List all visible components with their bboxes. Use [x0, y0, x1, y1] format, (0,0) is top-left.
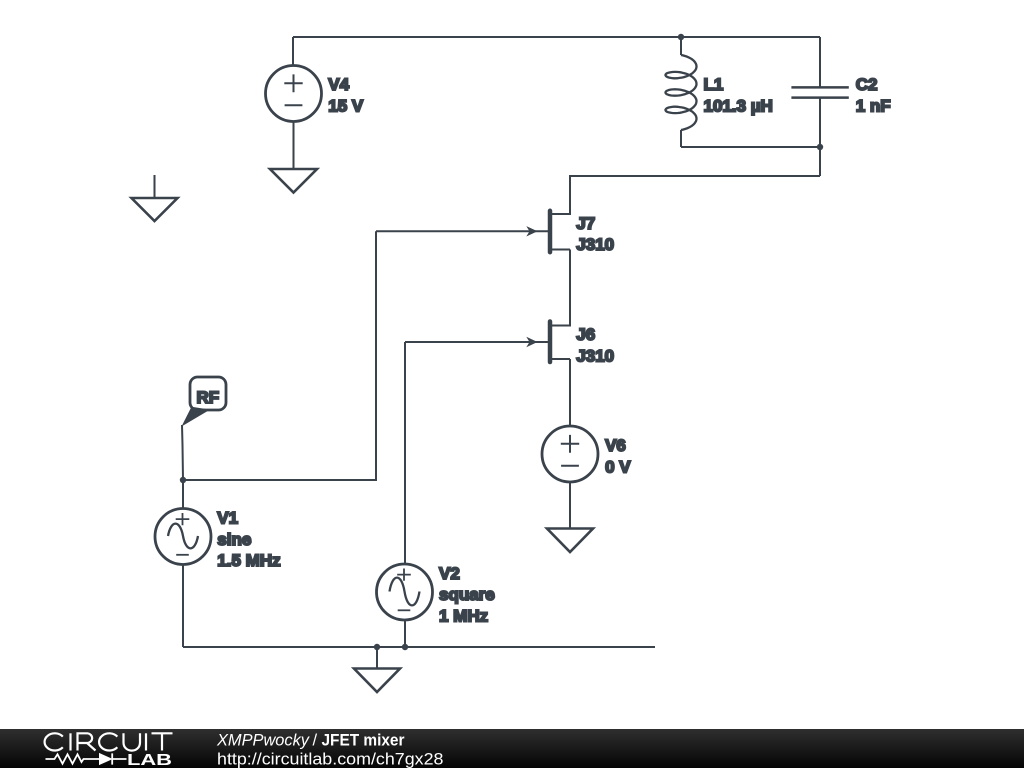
svg-text:RF: RF: [197, 388, 220, 407]
svg-text:V2: V2: [439, 564, 460, 583]
svg-text:http://circuitlab.com/ch7gx28: http://circuitlab.com/ch7gx28: [217, 750, 444, 768]
voltage source V2 (square): [377, 564, 433, 620]
svg-text:V1: V1: [217, 508, 238, 527]
logo resistor-diode: [46, 753, 127, 764]
node V2 junction: [402, 644, 408, 650]
svg-text:1.5 MHz: 1.5 MHz: [217, 551, 280, 570]
wire RF rail to J7 gate: [183, 231, 376, 480]
wire top rail V4 to C2: [293, 36, 820, 38]
svg-text:square: square: [439, 585, 495, 604]
capacitor C2: [819, 37, 821, 88]
svg-text:J7: J7: [576, 214, 595, 233]
node ground junction: [374, 644, 380, 650]
wire V4 bottom lead: [293, 122, 295, 170]
svg-text:0 V: 0 V: [605, 457, 631, 476]
wire V4 top lead: [292, 37, 294, 66]
wire RF tail down: [182, 425, 183, 480]
wire J7 source to J6 drain: [552, 250, 570, 326]
svg-text:V4: V4: [328, 75, 349, 94]
svg-text:XMPPwocky: XMPPwocky: [216, 731, 311, 749]
node C2 bottom junction: [817, 144, 823, 150]
transistor J6: [405, 322, 570, 363]
wire J6 gate to V2: [404, 342, 406, 564]
wire C2 bottom to J7 drain: [552, 176, 820, 214]
wire J6 source to V6: [569, 359, 571, 426]
svg-text:101.3 µH: 101.3 µH: [704, 96, 773, 115]
node RF junction: [180, 477, 186, 483]
voltage source V1 (sine): [155, 480, 211, 565]
node RF flag: [182, 377, 227, 427]
wire V2 bottom lead: [404, 620, 406, 647]
inductor L1: [680, 37, 682, 55]
ground below V6: [547, 529, 593, 553]
svg-text:J310: J310: [576, 235, 614, 254]
ground below V4: [270, 169, 317, 193]
wire L1 bottom to C2: [681, 146, 820, 148]
svg-text:J6: J6: [576, 325, 595, 344]
floating ground node: [154, 175, 156, 198]
svg-text:1 MHz: 1 MHz: [439, 607, 488, 626]
svg-text:L1: L1: [704, 75, 724, 94]
voltage source V4: [266, 66, 322, 122]
wire V1 bottom lead: [182, 565, 184, 648]
wire bottom rail: [183, 646, 655, 648]
svg-text:C2: C2: [856, 75, 878, 94]
svg-text:/: /: [313, 731, 318, 749]
svg-text:LAB: LAB: [127, 752, 172, 768]
voltage source V6: [542, 426, 598, 482]
svg-text:V6: V6: [605, 436, 626, 455]
wire V6 bottom lead: [569, 482, 571, 529]
node L1 top junction: [678, 34, 684, 40]
logo CIRCUIT: [45, 733, 173, 750]
ground bottom: [376, 647, 378, 669]
svg-text:J310: J310: [576, 347, 614, 366]
svg-text:1 nF: 1 nF: [856, 96, 891, 115]
svg-text:sine: sine: [217, 530, 251, 549]
svg-text:JFET mixer: JFET mixer: [322, 731, 406, 749]
transistor J7: [376, 211, 570, 252]
svg-text:15 V: 15 V: [328, 96, 364, 115]
